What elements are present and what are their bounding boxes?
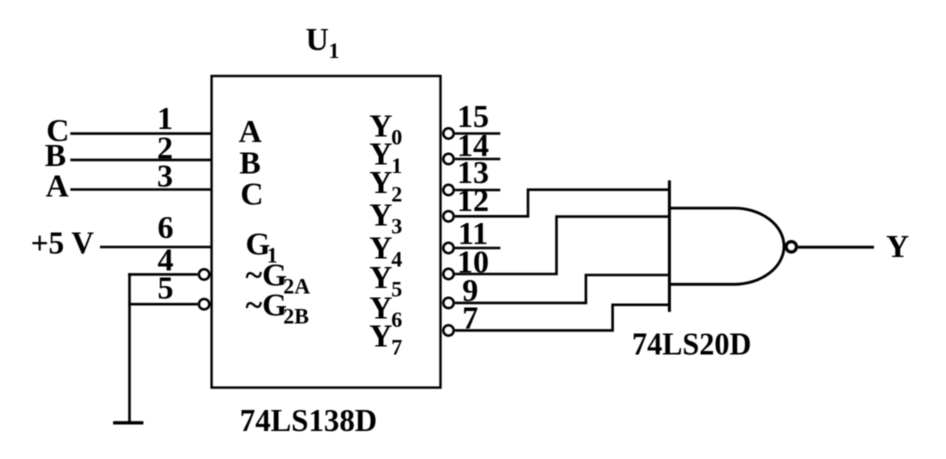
inversion bubble pin 11: [443, 243, 453, 253]
svg-text:7: 7: [462, 299, 478, 335]
svg-text:6: 6: [158, 209, 174, 245]
inversion bubble pin 13: [443, 185, 453, 195]
wire pin 3: [70, 188, 211, 191]
wire pin 4: [128, 273, 198, 276]
NAND gate U2 input bar: [668, 180, 671, 312]
inversion bubble pin 4: [199, 269, 209, 279]
svg-text:A: A: [46, 168, 69, 204]
wire pin 12 to gate input 1: [455, 190, 670, 217]
wire enable-to-ground vertical: [128, 273, 131, 423]
svg-text:3: 3: [157, 158, 173, 194]
svg-text:7: 7: [391, 335, 402, 360]
wire pin 6 (+5 V): [100, 246, 212, 249]
svg-text:Y: Y: [886, 228, 909, 264]
svg-text:1: 1: [391, 153, 402, 178]
wire pin 15 stub: [455, 132, 500, 135]
svg-text:74LS138D: 74LS138D: [240, 402, 377, 438]
inversion bubble pin 15: [443, 128, 453, 138]
svg-text:Y: Y: [369, 196, 392, 232]
wire pin 1: [70, 132, 211, 135]
svg-text:+5 V: +5 V: [31, 224, 94, 260]
svg-text:0: 0: [391, 125, 402, 150]
ground: [113, 421, 143, 424]
inversion bubble pin 9: [443, 298, 453, 308]
wire gate output: [798, 246, 874, 249]
wire pin 10 to gate input 2: [455, 217, 670, 274]
inversion bubble pin 7: [443, 325, 453, 335]
svg-text:~G: ~G: [246, 286, 288, 322]
wire pin 2: [70, 159, 211, 162]
svg-text:74LS20D: 74LS20D: [632, 325, 751, 361]
NAND gate U2 body (74LS20D): [669, 208, 784, 284]
wire pin 7 to gate input 4: [455, 305, 670, 331]
wire pin 9 to gate input 3: [455, 275, 670, 303]
NAND gate output bubble: [786, 242, 796, 252]
svg-text:2: 2: [391, 181, 402, 206]
svg-text:2A: 2A: [283, 274, 310, 299]
inversion bubble pin 12: [443, 211, 453, 221]
wire pin 13 stub: [455, 189, 500, 192]
svg-text:1: 1: [329, 38, 340, 63]
svg-text:5: 5: [391, 277, 402, 302]
svg-text:4: 4: [391, 247, 402, 272]
svg-text:3: 3: [391, 214, 402, 239]
inversion bubble pin 14: [443, 154, 453, 164]
decoder U1 body (74LS138D box): [212, 76, 441, 388]
inversion bubble pin 10: [443, 269, 453, 279]
svg-text:5: 5: [158, 269, 174, 305]
wire pin 5: [128, 303, 198, 306]
svg-text:C: C: [240, 175, 263, 211]
svg-text:2B: 2B: [283, 303, 309, 328]
wire pin 11 stub: [455, 247, 500, 250]
svg-text:6: 6: [391, 307, 402, 332]
svg-text:Y: Y: [369, 164, 392, 200]
inversion bubble pin 5: [199, 299, 209, 309]
svg-text:Y: Y: [369, 317, 392, 353]
wire pin 14 stub: [455, 158, 500, 161]
svg-text:U: U: [306, 21, 329, 57]
svg-text:12: 12: [457, 182, 489, 218]
